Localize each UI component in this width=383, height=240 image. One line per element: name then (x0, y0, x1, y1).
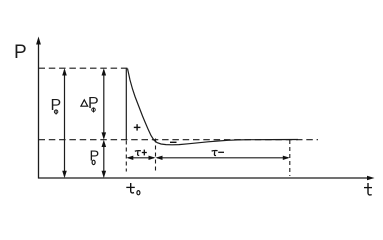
plus sign (overpressure zone) (134, 126, 141, 128)
tau- dimension arrow (157, 157, 288, 159)
P axis (vertical) (38, 40, 40, 179)
label tau+ (135, 151, 141, 156)
svg-text:P: P (14, 42, 27, 63)
P axis arrowhead (36, 37, 41, 45)
vertical dashed line at end of tau- (289, 140, 291, 176)
dimension line dPp (Pp to P0) (103, 70, 105, 138)
tau+ dimension arrow (128, 157, 154, 159)
t axis arrowhead (367, 176, 375, 180)
dimension line P0 (P0 level to axis) (103, 142, 105, 177)
t axis (horizontal) (38, 177, 371, 179)
label tau- (212, 150, 218, 155)
label t0 (131, 183, 134, 193)
dashed line at P0 level (asymptote) (39, 139, 319, 141)
dashed line at Pp level (39, 67, 130, 69)
vertical dashed line at end of tau+ (155, 139, 157, 173)
axis label t (368, 183, 372, 195)
vertical dashed line at t0 below P0 level (125, 141, 127, 172)
pressure decay curve (128, 69, 299, 145)
minus sign (underpressure zone) (170, 141, 177, 143)
svg-text:P: P (90, 149, 100, 165)
dimension line Pp (64, 70, 66, 177)
vertical line at t0 (solid part) (125, 68, 127, 140)
label dPp (81, 100, 88, 106)
